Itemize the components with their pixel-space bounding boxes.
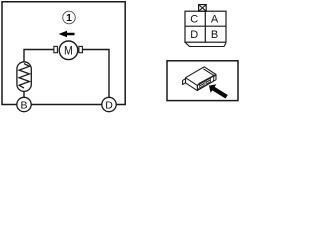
svg-text:D: D [105,99,113,111]
svg-text:C: C [190,14,198,26]
svg-text:M: M [64,43,73,57]
svg-text:1: 1 [66,12,72,24]
svg-text:D: D [190,29,198,41]
svg-text:B: B [20,99,27,111]
svg-text:B: B [211,29,218,41]
svg-text:A: A [211,14,219,26]
